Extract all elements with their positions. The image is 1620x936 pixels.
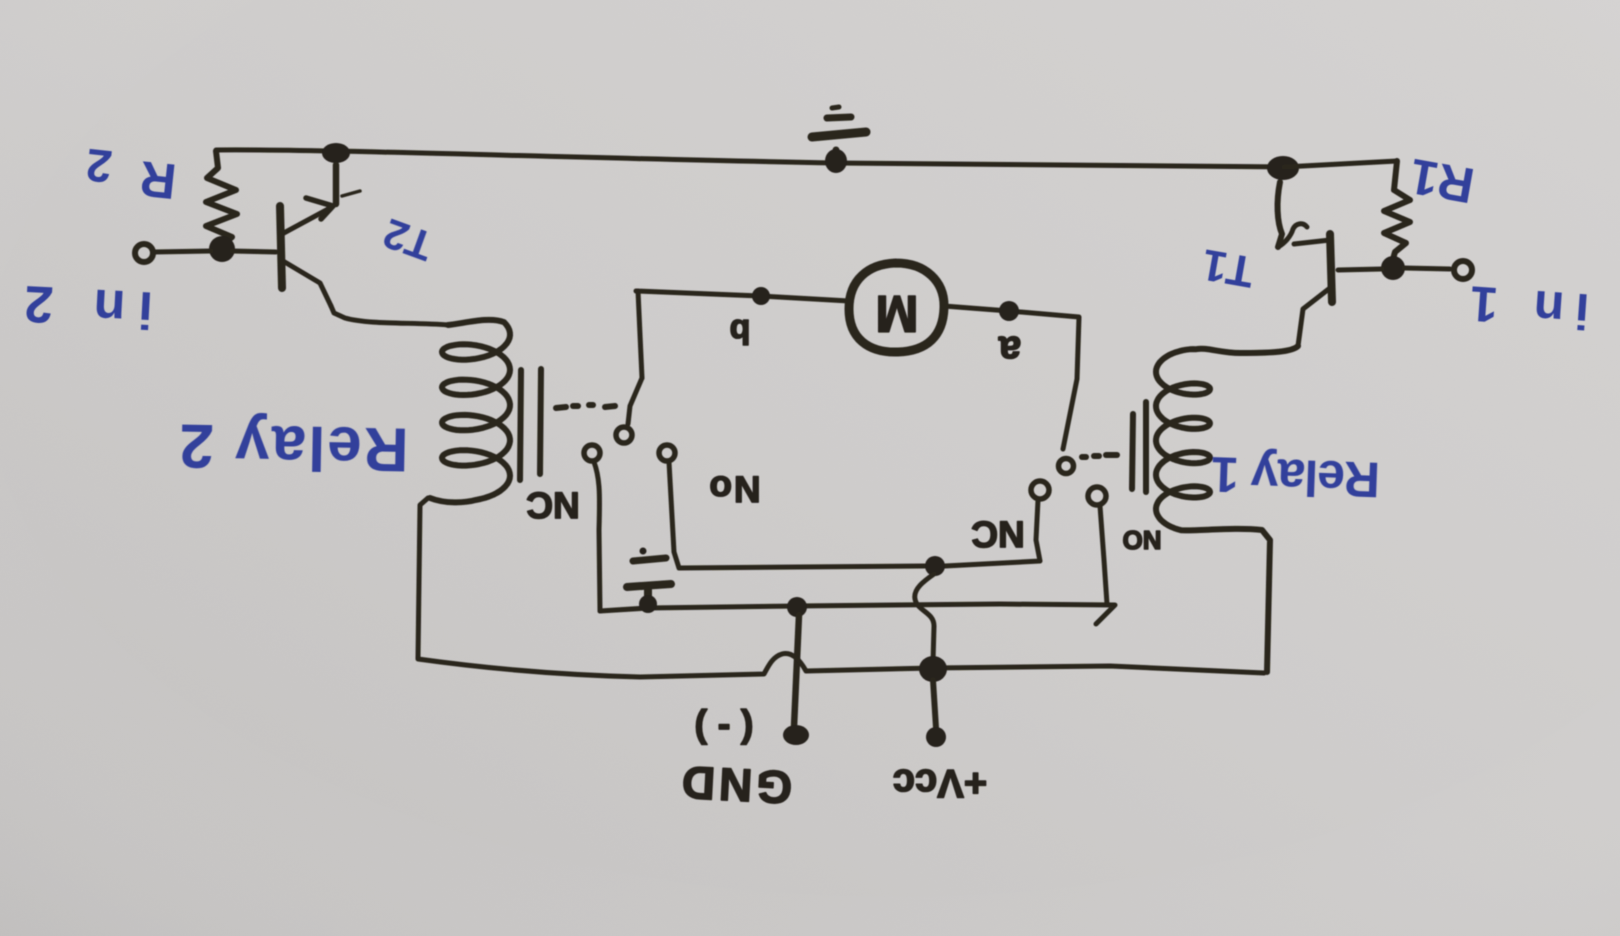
node: R2 bottom / T2 base junction <box>209 236 235 262</box>
wire: relay 2 coil to +V bus (left vertical) <box>418 498 428 658</box>
resistor R2 <box>206 151 237 246</box>
relay 2 core <box>520 369 541 480</box>
svg-text:in 1: in 1 <box>1457 275 1591 340</box>
node: R1 bottom / T1 base junction <box>1381 256 1405 280</box>
svg-text:T1: T1 <box>1198 239 1257 296</box>
svg-text:No: No <box>707 469 760 510</box>
node: T1 emitter / rail junction <box>1267 156 1299 180</box>
transistor T1 <box>1278 182 1332 302</box>
relay 2 coil L2 <box>430 320 510 503</box>
relay 2 NO contact <box>659 445 925 568</box>
wire: relay 2 common pole from node b <box>638 291 642 378</box>
relay 1 actuation dashed link <box>1082 455 1117 457</box>
ground symbol G1 (on top rail) <box>812 107 866 173</box>
terminal IN2 <box>135 244 211 262</box>
svg-text:NO: NO <box>1123 525 1162 555</box>
svg-text:b: b <box>730 312 751 350</box>
wire: T1 emitter to relay 1 coil <box>1298 288 1330 346</box>
wire: top ground rail <box>216 150 1284 167</box>
svg-text:+Vcc: +Vcc <box>893 761 988 805</box>
relay 2 actuation dashed link <box>556 405 615 408</box>
svg-text:NC: NC <box>971 514 1024 555</box>
svg-text:M: M <box>875 284 918 342</box>
svg-text:GND: GND <box>677 756 794 814</box>
wire: motor lead a <box>944 306 1079 449</box>
terminal IN1 <box>1404 261 1472 279</box>
terminal +Vcc stub <box>926 680 946 747</box>
node: GND stub junction <box>787 597 807 617</box>
svg-text:a: a <box>998 328 1021 372</box>
relay 1 NO contact <box>1088 487 1107 604</box>
motor M1 <box>849 263 944 352</box>
ground symbol G2 (middle) <box>627 548 671 614</box>
svg-text:NC: NC <box>526 485 579 526</box>
node a junction dot <box>999 301 1019 321</box>
node: +V junction <box>919 656 947 682</box>
wire: motor lead b <box>636 291 849 301</box>
node: T2 emitter / rail junction <box>322 143 350 163</box>
svg-text:Relay 1: Relay 1 <box>1211 446 1381 508</box>
svg-text:R: R <box>137 150 179 209</box>
wire: IN2 node to T2 base <box>232 251 276 252</box>
svg-text:Relay 2: Relay 2 <box>177 410 409 483</box>
wire: tie junction to +V bus (hop over GND bus) <box>915 574 934 662</box>
relay 1 pole arm <box>1059 459 1074 474</box>
relay 1 core <box>1132 402 1146 492</box>
+V bus <box>418 653 1264 677</box>
svg-text:in 2: in 2 <box>10 273 154 338</box>
relay 2 NC contact <box>584 445 600 611</box>
resistor R1 <box>1384 161 1410 259</box>
relay 1 NC contact <box>945 481 1049 566</box>
transistor T2 <box>280 165 360 306</box>
wire: T2 emitter to relay 2 coil <box>331 306 448 325</box>
GND bus <box>600 604 1115 624</box>
wire: node to T1 base <box>1338 269 1382 270</box>
relay 2 pole arm <box>616 378 642 443</box>
svg-text:R1: R1 <box>1406 148 1479 214</box>
relay 1 coil L1 <box>1156 346 1298 672</box>
node: NC/NO tie junction <box>925 556 945 576</box>
svg-text:( - ): ( - ) <box>694 708 753 750</box>
svg-text:2: 2 <box>84 139 115 193</box>
node b junction dot <box>752 287 770 305</box>
wire: rail to resistor R1 <box>1284 161 1397 167</box>
terminal GND stub <box>783 615 809 745</box>
